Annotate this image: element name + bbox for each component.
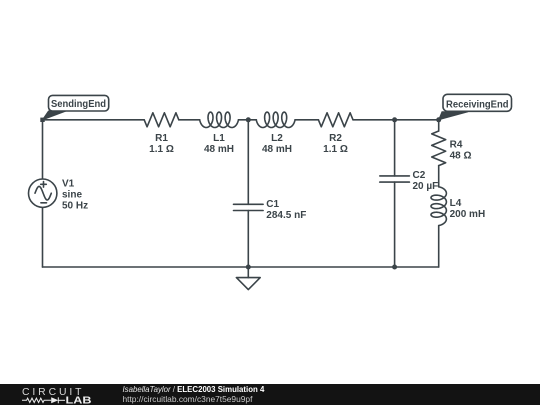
node ReceivingEnd junction dot bbox=[436, 117, 441, 122]
wire: ReceivingEnd node down to R4 bbox=[438, 120, 440, 131]
node SendingEnd terminal square bbox=[40, 118, 44, 122]
wire: bottom bus bbox=[43, 266, 439, 268]
wire: left rail bottom, V1 down to bottom bus bbox=[42, 207, 44, 267]
svg-text:LAB: LAB bbox=[66, 394, 92, 405]
wire: R2 to ReceivingEnd node through C2 tap bbox=[353, 119, 439, 121]
svg-text:1.1 Ω: 1.1 Ω bbox=[323, 144, 348, 155]
wire: C2 tap down to C2 top plate bbox=[394, 120, 396, 176]
capacitor C1 bbox=[234, 204, 264, 210]
footer bar bbox=[0, 384, 540, 405]
flag SendingEnd bbox=[43, 95, 109, 119]
inductor L2 bbox=[256, 112, 295, 127]
svg-text:ReceivingEnd: ReceivingEnd bbox=[446, 98, 509, 110]
wire: L4 down to bottom bus bbox=[438, 226, 440, 267]
flag ReceivingEnd bbox=[439, 94, 512, 120]
svg-text:R2: R2 bbox=[329, 133, 342, 144]
svg-text:50 Hz: 50 Hz bbox=[62, 200, 88, 211]
svg-text:200 mH: 200 mH bbox=[450, 209, 486, 220]
svg-text:http://circuitlab.com/c3ne7t5e: http://circuitlab.com/c3ne7t5e9u9pf bbox=[123, 394, 254, 404]
svg-text:48 mH: 48 mH bbox=[262, 144, 292, 155]
svg-text:sine: sine bbox=[62, 189, 82, 200]
node junction dot: ground tap on bottom bus bbox=[246, 265, 251, 270]
resistor R4 bbox=[432, 131, 446, 166]
wire: L2 to R2 bbox=[295, 119, 318, 121]
svg-text:SendingEnd: SendingEnd bbox=[51, 98, 106, 110]
svg-text:48 mH: 48 mH bbox=[204, 144, 234, 155]
svg-text:R1: R1 bbox=[155, 133, 168, 144]
node A junction dot (C1 tap on top bus) bbox=[246, 117, 251, 122]
capacitor C2 bbox=[380, 176, 410, 182]
logo CIRCUIT LAB bbox=[22, 387, 92, 405]
node junction dot: C2 bottom on bottom bus bbox=[392, 265, 397, 270]
wire: node A down to C1 top plate bbox=[247, 120, 249, 205]
wire: R1 to L1 bbox=[179, 119, 200, 121]
wire: C2 bottom plate down to bus bbox=[394, 182, 396, 267]
wire: top bus from SendingEnd node to R1 bbox=[43, 119, 145, 121]
inductor L1 bbox=[200, 112, 239, 127]
svg-text:284.5 nF: 284.5 nF bbox=[266, 210, 306, 221]
wire: L1 to L2 through node A bbox=[239, 119, 257, 121]
svg-text:L2: L2 bbox=[271, 133, 283, 144]
svg-text:L4: L4 bbox=[450, 198, 462, 209]
svg-text:L1: L1 bbox=[213, 133, 225, 144]
wire: C1 bottom plate down to bus bbox=[247, 211, 249, 268]
svg-text:V1: V1 bbox=[62, 178, 75, 189]
ground bbox=[236, 278, 260, 290]
wire: R4 to L4 bbox=[438, 166, 440, 187]
svg-text:C1: C1 bbox=[266, 199, 279, 210]
svg-text:1.1 Ω: 1.1 Ω bbox=[149, 144, 174, 155]
svg-text:R4: R4 bbox=[450, 139, 463, 150]
voltage source V1 bbox=[29, 179, 57, 207]
wire: left rail top, SendingEnd node down to V1 bbox=[42, 120, 44, 179]
svg-text:20 µF: 20 µF bbox=[413, 181, 439, 192]
svg-text:C2: C2 bbox=[413, 170, 426, 181]
node B junction dot (C2 tap on top bus) bbox=[392, 117, 397, 122]
svg-text:48 Ω: 48 Ω bbox=[450, 150, 472, 161]
resistor R2 bbox=[318, 113, 353, 127]
resistor R1 bbox=[144, 113, 179, 127]
inductor L4 bbox=[431, 187, 446, 226]
wire: ground stem bbox=[247, 267, 249, 278]
